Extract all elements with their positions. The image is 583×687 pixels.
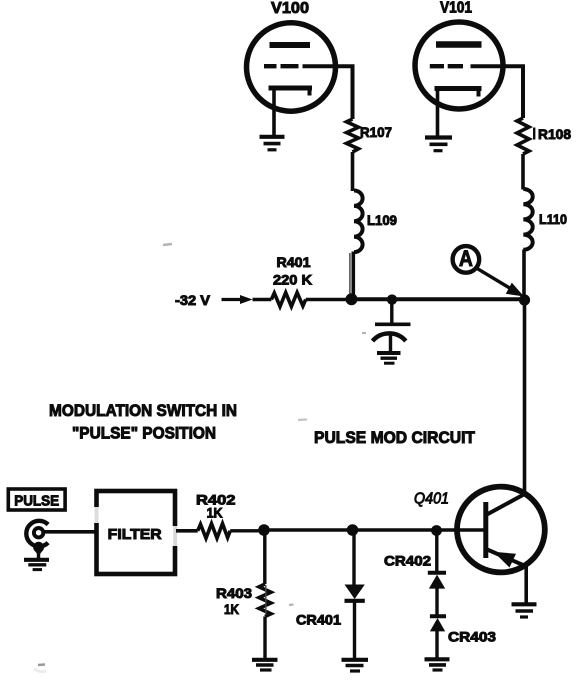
wire connector to filter [44, 530, 96, 534]
wire R403 to ground [263, 617, 266, 659]
wire V100 cathode to ground [272, 88, 276, 135]
svg-text:PULSE: PULSE [14, 493, 59, 510]
junction capacitor tap [387, 294, 397, 304]
ground V101 cathode [425, 138, 452, 151]
wire junction to CR401 [352, 530, 355, 585]
svg-text:R403: R403 [216, 585, 252, 601]
diode CR401 [345, 585, 365, 601]
ground R403 [252, 660, 278, 670]
wire CR401 junction to CR402 junction [353, 528, 438, 531]
ground V100 cathode [260, 137, 285, 150]
wire bottom bus junction to CR401 junction [264, 528, 353, 531]
filter box FL [94, 491, 178, 574]
wire arrow to R401 [253, 298, 272, 302]
ground connector [24, 560, 49, 570]
svg-text:"PULSE" POSITION: "PULSE" POSITION [72, 425, 216, 443]
capacitor bypass [373, 300, 411, 352]
wire CR401 to ground [353, 601, 356, 658]
svg-text:CR402: CR402 [384, 553, 431, 569]
svg-text:L109: L109 [367, 212, 397, 228]
svg-text:-32 V: -32 V [175, 292, 211, 308]
wire L109 to bus junction [351, 252, 355, 300]
svg-text:V100: V100 [271, 0, 309, 17]
inductor L109 [354, 191, 363, 253]
wire junction to R403 [263, 530, 266, 584]
svg-text:R401: R401 [277, 254, 311, 270]
svg-text:220 K: 220 K [273, 272, 312, 288]
wire filter to R402 [176, 529, 198, 533]
ground capacitor [377, 353, 401, 363]
junction node A [519, 294, 530, 305]
wire L110 to node A junction [522, 250, 526, 300]
junction R403 tap [258, 524, 270, 536]
wire V100 grid to R107 [303, 66, 353, 119]
label R108 [533, 128, 535, 140]
wire R402 to junction [230, 529, 264, 532]
resistor R108 [517, 118, 529, 154]
resistor R402 [198, 524, 231, 539]
svg-text:FILTER: FILTER [108, 526, 162, 543]
diode CR403 [430, 616, 446, 631]
wire node A junction to Q401 collector [523, 300, 527, 494]
svg-text:1K: 1K [224, 601, 239, 617]
wire CR403 to ground [435, 631, 438, 658]
wire CR402 to CR403 [435, 588, 438, 616]
junction CR401 tap [347, 524, 359, 536]
transistor Q401 [457, 487, 545, 573]
svg-text:PULSE MOD CIRCUIT: PULSE MOD CIRCUIT [314, 429, 475, 447]
svg-text:Q401: Q401 [414, 491, 449, 508]
wire V101 cathode to ground [436, 89, 440, 137]
wire Q401 emitter to ground [524, 566, 528, 604]
svg-text:CR403: CR403 [448, 629, 496, 645]
resistor R403 [259, 584, 271, 617]
wire bus to Q401 base [437, 528, 486, 532]
connector J pulse input [26, 521, 48, 556]
svg-text:R108: R108 [538, 126, 571, 142]
svg-text:L110: L110 [539, 211, 567, 227]
junction R401/L109 [346, 293, 358, 305]
faint scan smudges (decorative) [34, 244, 366, 672]
tube V101 [415, 22, 503, 109]
svg-text:A: A [459, 246, 473, 271]
tube V100 [247, 23, 336, 111]
svg-text:V101: V101 [440, 0, 472, 17]
wire top bus to node A [352, 297, 525, 301]
wire junction to CR402 [435, 531, 438, 573]
ground Q401 emitter [512, 604, 537, 617]
wire V101 grid to R108 [471, 66, 524, 118]
label PULSE boxed [8, 489, 65, 510]
wire connector to ground [37, 552, 40, 559]
diode CR402 [428, 573, 446, 589]
svg-text:CR401: CR401 [296, 612, 341, 628]
ground CR401 [342, 660, 369, 671]
junction CR402 tap [431, 525, 442, 536]
inductor L110 [523, 189, 532, 250]
wire R107 to L109 [351, 152, 355, 191]
node A [453, 246, 524, 297]
wire -32V feed arrow [222, 295, 253, 304]
resistor R107 [347, 119, 359, 152]
resistor R401 [271, 293, 305, 307]
svg-text:MODULATION SWITCH IN: MODULATION SWITCH IN [49, 402, 237, 420]
svg-text:1K: 1K [207, 505, 223, 521]
wire R401 to junction [306, 298, 352, 302]
svg-text:R107: R107 [360, 124, 392, 140]
ground CR402/CR403 [425, 659, 450, 670]
wire R108 to L110 [521, 154, 525, 190]
